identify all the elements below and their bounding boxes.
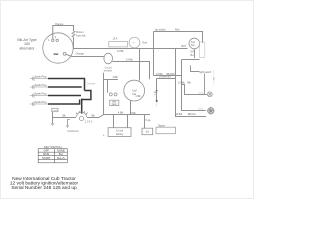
- svg-text:Spark Plug: Spark Plug: [35, 101, 47, 104]
- solenoid: [142, 128, 153, 135]
- alternator A1: [43, 33, 73, 63]
- svg-text:NONE: NONE: [57, 149, 65, 153]
- svg-text:lamp: lamp: [199, 92, 205, 94]
- svg-text:Cond: Cond: [53, 110, 58, 112]
- svg-text:fuse link: fuse link: [76, 35, 86, 38]
- svg-text:Coil wire: Coil wire: [87, 82, 97, 85]
- labels lamp1 branch: [178, 82, 192, 85]
- connector circles: [109, 93, 112, 96]
- spark plug 4: [30, 102, 48, 107]
- wire loom box: [110, 100, 119, 105]
- wire: switch to light switch: [191, 49, 205, 95]
- spark plug 2: [30, 85, 48, 90]
- svg-text:Red: Red: [175, 28, 180, 31]
- svg-text:Blk/Wht: Blk/Wht: [167, 73, 176, 76]
- ground (condenser): [51, 123, 55, 125]
- wire: breaker to coil area: [113, 62, 150, 80]
- svg-text:Spark Plug: Spark Plug: [35, 92, 47, 95]
- svg-text:6 ga: 6 ga: [146, 119, 151, 122]
- svg-text:Distributor: Distributor: [68, 130, 80, 133]
- svg-text:OFF: OFF: [44, 149, 50, 153]
- rail C (tail light): [176, 49, 207, 117]
- wire: lamp 1 branch: [182, 85, 208, 95]
- svg-text:B+I+S: B+I+S: [57, 156, 65, 160]
- vertical label black: [213, 70, 215, 85]
- rail B (battery cable): [156, 79, 158, 101]
- wire: alternator terminal to fuse: [53, 26, 74, 40]
- coil HT lead to distributor: [81, 99, 83, 114]
- wire: coil bottom to low run: [130, 100, 132, 114]
- svg-text:START: START: [42, 156, 51, 160]
- svg-text:1 Blk: 1 Blk: [135, 95, 141, 98]
- wire: feed drop to coil: [139, 49, 141, 81]
- svg-text:Ign switch: Ign switch: [155, 28, 166, 31]
- svg-text:B+I: B+I: [59, 152, 63, 156]
- condenser box: [52, 108, 58, 111]
- ground 2: [66, 125, 69, 127]
- spark plug 3: [30, 93, 48, 98]
- spark plug wire 3: [48, 95, 81, 97]
- wire: distributor right to rail: [87, 117, 99, 119]
- wire: light switch to rail D: [182, 59, 200, 61]
- svg-text:Orange: Orange: [76, 52, 85, 55]
- rail D (headlight): [182, 60, 206, 111]
- circuit breaker: [104, 53, 113, 64]
- svg-text:alternator: alternator: [19, 46, 35, 50]
- svg-text:4 Blk: 4 Blk: [130, 112, 136, 115]
- svg-text:BAT: BAT: [182, 45, 187, 48]
- svg-text:4 Blk: 4 Blk: [118, 111, 124, 114]
- svg-text:Bat: Bat: [54, 52, 59, 56]
- wire: alternator BAT to circuit breaker: [66, 54, 104, 56]
- labels on bridge: [155, 28, 180, 31]
- svg-text:16 Blk/Red: 16 Blk/Red: [159, 76, 171, 79]
- svg-text:Sw: Sw: [191, 44, 195, 47]
- battery: [108, 128, 131, 137]
- headlight 1: [207, 92, 212, 97]
- wire: main feed from fuse to ignition switch: [74, 38, 188, 49]
- distributor: [76, 111, 88, 121]
- branch to connector: [104, 80, 118, 93]
- wire: drop to solenoid: [144, 115, 146, 129]
- svg-text:lamp: lamp: [199, 108, 205, 110]
- title text block: [10, 176, 79, 191]
- svg-text:Red: Red: [143, 41, 148, 44]
- svg-text:18 Blk: 18 Blk: [175, 113, 182, 116]
- starter bracket: [156, 127, 176, 134]
- wire: drops to battery: [114, 115, 128, 128]
- svg-text:2 Blk: 2 Blk: [113, 76, 119, 79]
- svg-text:Blk/Grn: Blk/Grn: [188, 113, 197, 116]
- spark plug wire 2: [48, 86, 82, 88]
- svg-text:Starter: Starter: [158, 124, 165, 127]
- ignition coil: [124, 80, 145, 101]
- svg-text:light switch: light switch: [200, 71, 212, 74]
- wire: distributor to ground 2: [68, 120, 71, 126]
- svg-text:loom: loom: [112, 104, 117, 106]
- labels tail wire: [175, 113, 196, 116]
- labels lights feed: [156, 73, 175, 76]
- svg-text:10 A: 10 A: [113, 38, 118, 41]
- svg-text:battery: battery: [116, 133, 124, 136]
- ignition switch: [189, 38, 200, 49]
- low horizontal run: [99, 115, 150, 118]
- svg-text:18 Blk: 18 Blk: [156, 73, 163, 76]
- key switch table: [38, 149, 67, 163]
- spark plug wire 1: [48, 79, 85, 91]
- svg-text:Serial Number 248 125 and up: Serial Number 248 125 and up: [11, 185, 77, 191]
- wire: rail B top run: [157, 78, 176, 80]
- wire: condenser to ground: [52, 112, 54, 124]
- alternator label: [17, 38, 36, 50]
- svg-text:+: +: [103, 134, 105, 138]
- svg-text:14 Blk: 14 Blk: [126, 59, 133, 62]
- fuse F1: [72, 31, 75, 38]
- rail A (switch bridge): [154, 32, 203, 76]
- junction dots rail B: [156, 100, 158, 102]
- svg-text:Sol: Sol: [146, 132, 150, 134]
- svg-text:16 Blk: 16 Blk: [178, 82, 185, 85]
- left rail from breaker down: [103, 73, 105, 115]
- svg-text:Orange: Orange: [55, 23, 64, 26]
- svg-text:1 3 4 2: 1 3 4 2: [85, 121, 93, 124]
- headlight 2: [207, 107, 215, 115]
- page border: [1, 1, 254, 199]
- spark plug 1: [30, 76, 48, 81]
- HT lead loop: [82, 91, 91, 100]
- ammeter: [109, 42, 128, 47]
- svg-text:14 Blk: 14 Blk: [117, 50, 124, 53]
- wire: low run left of distributor: [53, 117, 77, 119]
- svg-text:RUN: RUN: [43, 152, 49, 156]
- svg-text:breaker: breaker: [104, 70, 113, 73]
- spark plug wire 4: [48, 100, 80, 105]
- svg-text:KEY SWITCH: KEY SWITCH: [44, 145, 61, 149]
- svg-text:Spark Plug: Spark Plug: [35, 84, 47, 87]
- horizontal to lights feed: [154, 75, 182, 77]
- svg-text:Spark Plug: Spark Plug: [35, 75, 47, 78]
